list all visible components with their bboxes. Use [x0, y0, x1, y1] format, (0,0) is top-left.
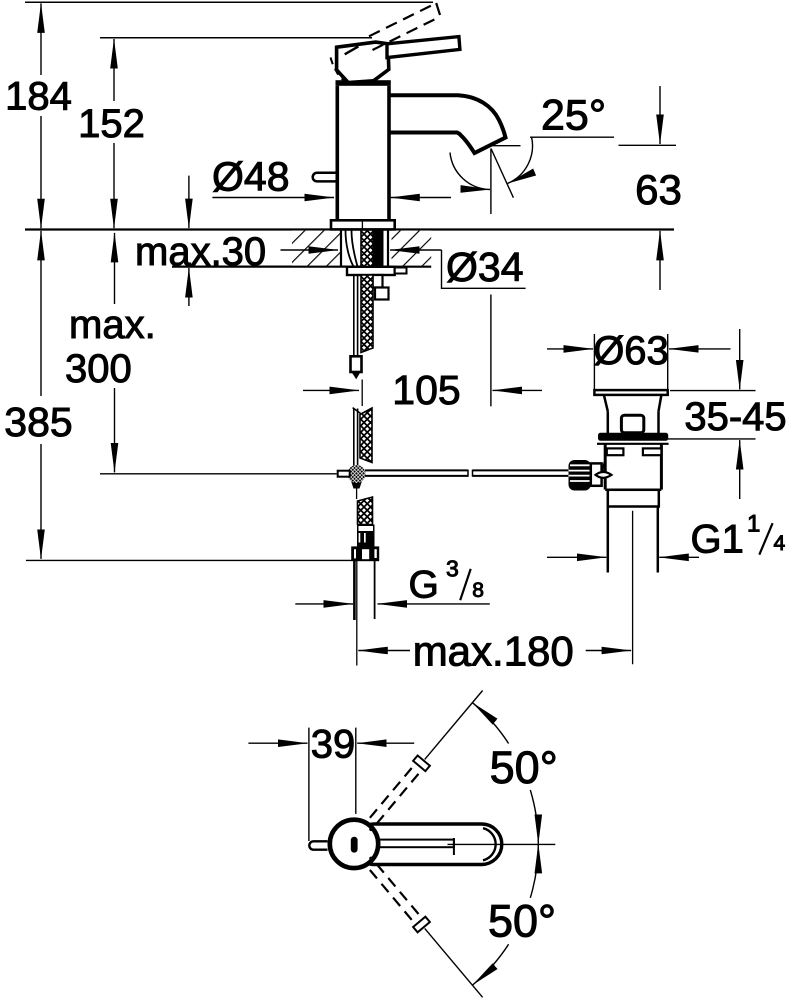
base flange [331, 220, 395, 229]
svg-text:G: G [409, 564, 439, 607]
mounting washer [347, 267, 395, 275]
tail pipe right [657, 507, 660, 573]
handle lump [337, 42, 389, 83]
svg-text:max.30: max.30 [135, 230, 266, 274]
faucet body left edge [335, 86, 339, 221]
deck top line [25, 228, 674, 230]
capsule inner end arc [483, 828, 496, 860]
valve body right [660, 445, 663, 490]
braided hose segment C [358, 497, 373, 525]
drain taper right [659, 395, 662, 411]
rod segment B line 2 [357, 409, 359, 466]
svg-text:184: 184 [5, 75, 72, 119]
svg-text:50°: 50° [490, 742, 558, 793]
tail pipe left [607, 507, 610, 573]
hose crimp fitting [357, 525, 375, 547]
mounting nut step 1 [373, 275, 383, 288]
handle pin mark [351, 837, 358, 853]
slot end tick [453, 838, 455, 855]
dashed lever up 50deg [377, 770, 422, 824]
svg-text:25°: 25° [541, 92, 606, 140]
svg-text:50°: 50° [488, 896, 556, 947]
connection pipe [353, 561, 356, 620]
drain centerline [632, 511, 634, 665]
dashed lever raised line 2 [373, 17, 441, 50]
pop-up rod curve b [352, 231, 358, 267]
spout tip tick [492, 145, 521, 147]
extension line 50deg up [425, 691, 483, 760]
centerline top view [448, 843, 556, 845]
capsule inner slot [374, 840, 454, 848]
dimension 152 [78, 39, 145, 228]
valve body left [604, 445, 607, 490]
svg-text:8: 8 [472, 579, 484, 602]
pop-up knob stub [313, 173, 336, 182]
extension line 50deg down [425, 928, 483, 997]
svg-text:max.180: max.180 [413, 628, 574, 675]
dimension 25 deg [450, 92, 614, 215]
dimension 385 [4, 231, 72, 559]
overflow slot left [607, 448, 624, 455]
seal collar [598, 433, 668, 441]
shank hole right edge [387, 230, 389, 267]
spout outline [390, 95, 506, 153]
centerline below ball [356, 483, 358, 499]
centerline above 105 [361, 380, 363, 407]
handle internal line [345, 46, 359, 54]
pop-up stub top view [309, 841, 327, 849]
dimension 63 [635, 86, 682, 290]
svg-text:Ø34: Ø34 [446, 244, 524, 290]
pop-up rod below deck line 1 [353, 275, 355, 356]
svg-text:385: 385 [4, 399, 72, 445]
lower collar [608, 490, 659, 507]
dimension max.300 [65, 233, 156, 473]
ball joint [350, 478, 363, 489]
svg-text:max.: max. [69, 303, 156, 347]
drain neck left [607, 411, 610, 433]
dimension 105 [303, 295, 542, 414]
dimension 50deg upper [473, 703, 558, 844]
mounting nut step 2 [375, 288, 389, 300]
dimension Ø48 [212, 154, 451, 200]
plug stem [621, 415, 643, 433]
ball left stub [338, 471, 350, 477]
drain flange [594, 390, 667, 395]
svg-text:39: 39 [311, 723, 356, 767]
svg-text:35-45: 35-45 [684, 395, 786, 439]
horizontal pop-up rod right part [473, 469, 569, 471]
braided hose in hole [361, 230, 373, 267]
centerline through flange [361, 221, 363, 229]
rod segment B line 1 [353, 409, 355, 466]
dimension max.180 [358, 628, 631, 675]
dimension 35-45 [668, 329, 787, 499]
svg-text:Ø63: Ø63 [593, 329, 669, 373]
faucet body right edge [387, 86, 391, 221]
slanted 25deg line [491, 149, 513, 198]
svg-text:4: 4 [774, 532, 786, 555]
drain neck right [657, 411, 660, 433]
dimension 184 [5, 3, 72, 228]
overflow slot right [643, 448, 662, 455]
faucet body circle [330, 820, 378, 868]
washer tab [395, 268, 407, 274]
deck hatch left [292, 231, 341, 266]
rod end tip [352, 372, 361, 379]
reference line top (184 level) [25, 1, 433, 3]
svg-text:Ø48: Ø48 [212, 154, 290, 200]
vertical thin line at spout tip [490, 149, 492, 215]
spout tip extension line [490, 295, 492, 407]
knurled knob [569, 460, 591, 491]
pop-up rod curve a [346, 231, 354, 267]
svg-text:63: 63 [635, 166, 682, 213]
dashed lever end cap [436, 3, 440, 15]
rod pivot inside valve [596, 472, 612, 478]
faucet body fill [336, 86, 391, 221]
threaded shank black bar [373, 230, 384, 267]
dimension G3/8 [295, 556, 490, 607]
svg-text:1: 1 [747, 511, 760, 538]
hose end reference line (385 bottom) [26, 559, 352, 561]
dimension Ø34 [281, 244, 526, 290]
rod end fitting [351, 356, 362, 372]
svg-text:300: 300 [65, 347, 132, 391]
right arc with arrow [508, 137, 533, 184]
lever pivot dots [369, 828, 373, 832]
svg-text:3: 3 [446, 556, 459, 582]
spout capsule top view [354, 824, 502, 865]
deck hatch right [392, 231, 432, 266]
svg-text:105: 105 [392, 367, 460, 413]
shank hole left edge [340, 230, 342, 267]
left arc with arrow [450, 153, 490, 190]
dashed lever raised line 1 [369, 3, 436, 36]
dimension Ø63 [547, 329, 731, 390]
dimension max.30 [135, 176, 266, 306]
dimension G1 1/4 [547, 511, 786, 562]
63 tick line [619, 144, 677, 146]
rod segment B top cap [353, 408, 361, 414]
rod level reference line (max.300 bottom) [100, 473, 337, 475]
collar lip line [597, 443, 669, 445]
deck bottom line [172, 266, 431, 268]
valve body bottom [605, 489, 661, 492]
braided hose segment B [360, 408, 372, 463]
svg-text:G1: G1 [691, 517, 744, 561]
reference line handle top (152 level) [100, 37, 372, 39]
dashed handle rotated outline [331, 58, 344, 81]
cartridge ring (black band) [336, 80, 391, 86]
svg-text:152: 152 [78, 102, 145, 146]
knob connector [591, 463, 602, 485]
G3/8 nut [351, 546, 379, 561]
horizontal pop-up rod left part [365, 469, 468, 471]
dimension 50deg lower [473, 844, 557, 985]
drain taper left [604, 395, 608, 411]
braided hose below washer [361, 275, 373, 353]
handle lever [387, 37, 460, 58]
dimension 39 [248, 723, 414, 842]
dashed lever down 50deg [377, 864, 422, 918]
pop-up rod below deck line 2 [357, 275, 359, 356]
lower centerline [356, 561, 358, 666]
